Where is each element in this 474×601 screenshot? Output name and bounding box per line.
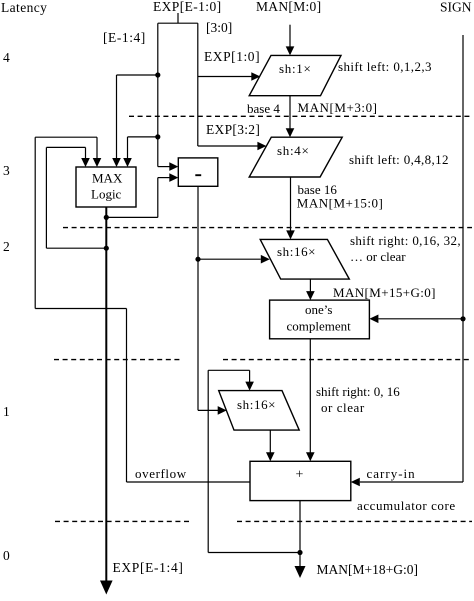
label ... or clear <box>350 249 406 264</box>
svg-text:shift right: 0,16, 32,: shift right: 0,16, 32, <box>350 233 461 248</box>
label base 4 <box>247 101 280 116</box>
svg-text:MAN[M+18+G:0]: MAN[M+18+G:0] <box>317 562 418 577</box>
label shift left: 0,1,2,3 <box>338 59 432 74</box>
wire SH16B output to adder <box>266 430 275 461</box>
label overflow <box>135 466 187 481</box>
node MAX output junction A <box>104 215 109 220</box>
svg-text:+: + <box>296 468 304 483</box>
svg-text:overflow: overflow <box>135 466 187 481</box>
svg-text:EXP[E-1:4]: EXP[E-1:4] <box>113 560 184 575</box>
svg-text:MAN[M+3:0]: MAN[M+3:0] <box>298 100 378 115</box>
svg-text:2: 2 <box>3 239 10 254</box>
wire branch to MAX input 4 <box>123 137 158 167</box>
wire SIGN carry-in to adder <box>351 478 463 487</box>
label bus [E-1:4] <box>103 30 146 45</box>
shifter SH16B sh:16x right shifter <box>219 391 300 431</box>
svg-text:EXP[1:0]: EXP[1:0] <box>204 49 260 64</box>
shifter SH16A sh:16x right shifter <box>260 239 349 279</box>
svg-text:sh:16×: sh:16× <box>237 397 276 412</box>
dashed separator latency 2/1 <box>54 359 472 361</box>
node adder output junction <box>297 550 302 555</box>
svg-text:1: 1 <box>3 404 10 419</box>
label MAN[M+15+G:0] <box>333 285 436 300</box>
label shift right: 0,16, 32, <box>350 233 461 248</box>
svg-text:carry-in: carry-in <box>367 466 416 481</box>
svg-text:MAN[M+15:0]: MAN[M+15:0] <box>297 196 384 211</box>
box MAX Logic <box>76 167 136 207</box>
svg-text:sh:4×: sh:4× <box>277 143 310 158</box>
label MAN[M+3:0] <box>298 100 378 115</box>
label Latency <box>1 0 47 15</box>
label shift right: 0, 16 <box>316 384 400 399</box>
svg-text:one’s: one’s <box>305 302 332 317</box>
svg-text:MAN[M:0]: MAN[M:0] <box>256 0 321 14</box>
wire SH16A output to ones complement <box>306 279 315 300</box>
svg-text:accumulator core: accumulator core <box>357 498 456 513</box>
label base 16 <box>298 182 338 197</box>
svg-text:Logic: Logic <box>91 187 122 202</box>
wire EXP stub <box>177 13 179 23</box>
svg-text:shift left: 0,4,8,12: shift left: 0,4,8,12 <box>349 152 449 167</box>
svg-text:MAX: MAX <box>92 171 123 186</box>
input label EXP[E-1:0] <box>153 0 222 14</box>
label accumulator core <box>357 498 456 513</box>
shifter SH4 sh:4x <box>249 137 342 177</box>
node junction at EXP high y137 <box>155 134 160 139</box>
wire SH1 output to SH4 <box>286 96 295 138</box>
wire overflow feedback outer loop <box>35 137 250 482</box>
label or clear <box>321 400 365 415</box>
node subtractor output junction <box>195 257 200 262</box>
svg-text:shift left: 0,1,2,3: shift left: 0,1,2,3 <box>338 59 432 74</box>
input label MAN[M:0] <box>256 0 321 14</box>
wire subtractor to SH16B <box>198 406 227 415</box>
svg-text:[3:0]: [3:0] <box>206 20 232 35</box>
label latency 4 <box>3 50 10 65</box>
box adder <box>250 461 351 500</box>
wire subtractor output <box>197 186 199 410</box>
dashed separator latency 4/3 <box>129 115 472 117</box>
wire subtractor to SH16A <box>198 255 270 264</box>
svg-text:[E-1:4]: [E-1:4] <box>103 30 146 45</box>
wire MAN input to SH1 <box>286 25 295 56</box>
label EXP[1:0] <box>204 49 260 64</box>
label latency 1 <box>3 404 10 419</box>
svg-text:sh:1×: sh:1× <box>279 61 312 76</box>
svg-text:3: 3 <box>3 163 10 178</box>
box subtractor <box>178 158 218 186</box>
dashed separator latency 1/0 <box>55 520 472 522</box>
node MAX output junction B <box>104 246 109 251</box>
wire EXP[1:0] to shifter SH1 <box>198 72 260 81</box>
label MAN[M+18+G:0] output <box>317 562 418 577</box>
node junction at EXP high y75 <box>155 72 160 77</box>
svg-text:or clear: or clear <box>321 400 365 415</box>
label latency 3 <box>3 163 10 178</box>
label shift left: 0,4,8,12 <box>349 152 449 167</box>
wire MAX output to EXP[E-1:4] out <box>100 207 113 595</box>
node SIGN junction <box>460 316 465 321</box>
dashed separator latency 3/2 <box>63 227 472 229</box>
box ones complement <box>270 300 370 339</box>
svg-text:… or clear: … or clear <box>350 249 406 264</box>
label EXP[E-1:4] output <box>113 560 184 575</box>
wire SH4 output to SH16A <box>286 177 295 239</box>
wire EXP low bits vertical <box>197 23 199 146</box>
wire MAX output to subtractor lower input <box>106 173 178 217</box>
input label SIGN <box>440 0 472 15</box>
svg-text:sh:16×: sh:16× <box>277 244 316 259</box>
label EXP[3:2] <box>206 122 260 137</box>
label latency 0 <box>3 548 10 563</box>
wire accumulator feedback loop <box>208 370 300 552</box>
svg-text:EXP[E-1:0]: EXP[E-1:0] <box>153 0 222 14</box>
wire EXP high bits vertical <box>158 23 179 171</box>
svg-text:SIGN: SIGN <box>440 0 472 15</box>
label bus [3:0] <box>206 20 232 35</box>
svg-text:Latency: Latency <box>1 0 47 15</box>
svg-text:base 4: base 4 <box>247 101 280 116</box>
shifter SH1 sh:1x <box>249 55 341 95</box>
svg-text:4: 4 <box>3 50 10 65</box>
label latency 2 <box>3 239 10 254</box>
wire SIGN to ones complement <box>369 315 463 324</box>
label MAN[M+15:0] <box>297 196 384 211</box>
wire branch to MAX input 3 <box>112 75 158 167</box>
svg-text:MAN[M+15+G:0]: MAN[M+15+G:0] <box>333 285 436 300</box>
wire SIGN vertical <box>462 35 464 482</box>
svg-text:EXP[3:2]: EXP[3:2] <box>206 122 260 137</box>
wire MAX feedback inner loop <box>46 147 106 248</box>
wire EXP[3:2] to shifter SH4 <box>198 142 267 151</box>
svg-text:shift right: 0, 16: shift right: 0, 16 <box>316 384 400 399</box>
svg-text:complement: complement <box>287 319 352 334</box>
wire ones complement output to adder <box>306 339 315 462</box>
wire EXP fork bracket <box>158 22 198 24</box>
wire adder output to MAN out <box>295 501 306 578</box>
label carry-in <box>367 466 416 481</box>
svg-text:0: 0 <box>3 548 10 563</box>
